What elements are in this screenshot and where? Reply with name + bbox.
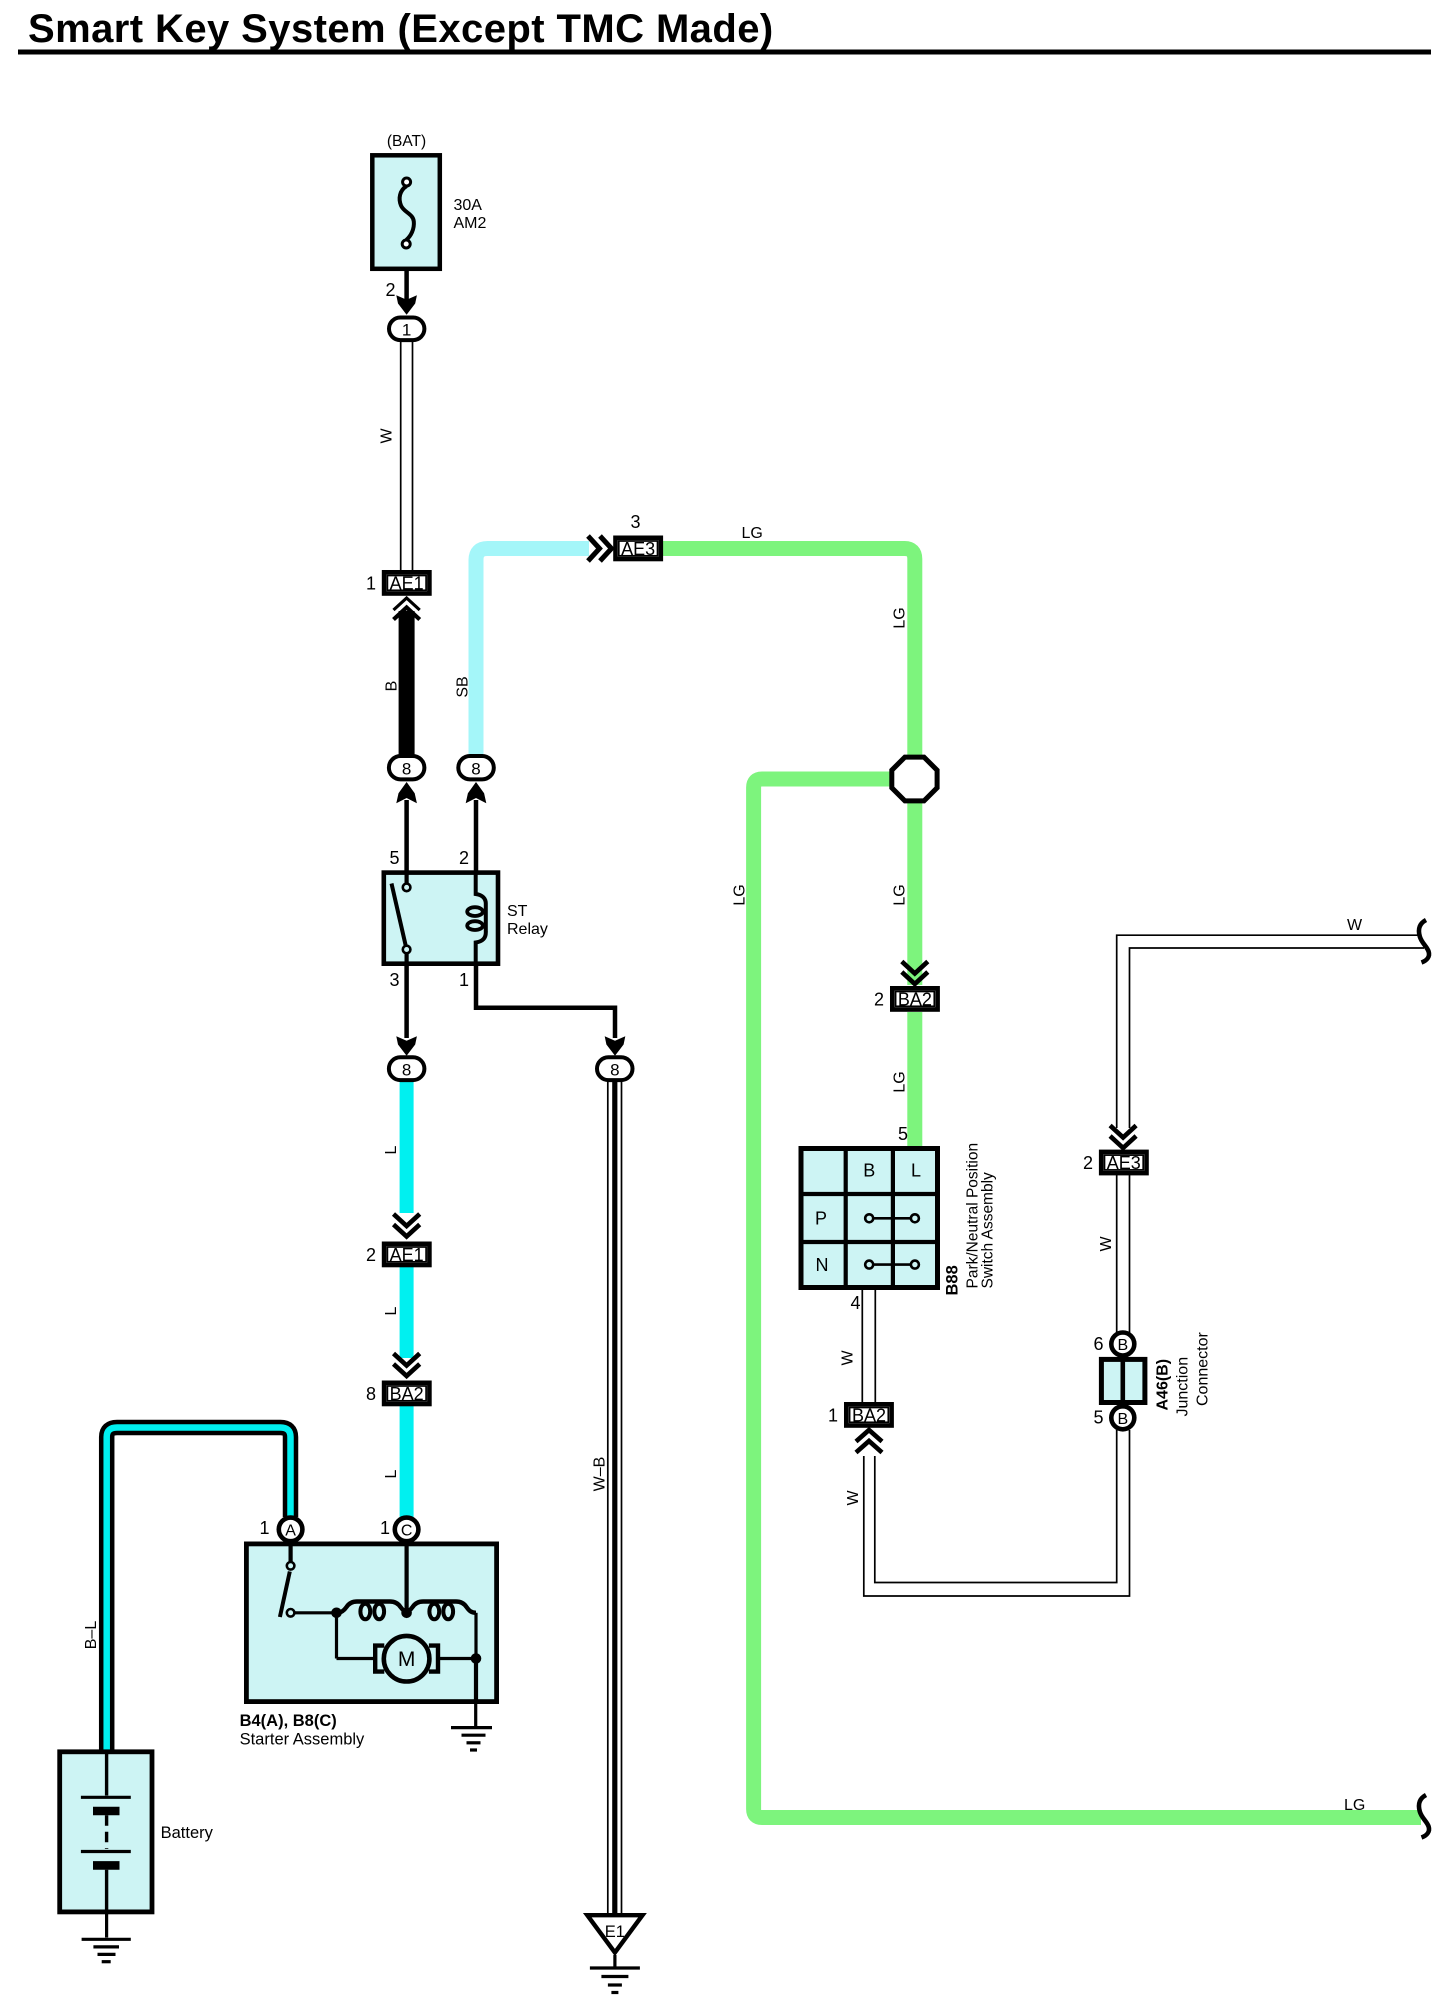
svg-text:L: L — [911, 1161, 921, 1181]
svg-text:A: A — [285, 1523, 296, 1540]
svg-text:W: W — [1347, 917, 1363, 934]
wire thin: relay pin2 up to splice 8 — [474, 800, 479, 872]
svg-text:A46(B): A46(B) — [1155, 1359, 1172, 1411]
wire L BA2 pin8 to starter terminal C — [400, 1404, 414, 1518]
svg-text:N: N — [816, 1255, 829, 1275]
svg-text:W: W — [840, 1350, 857, 1366]
ground E1 — [587, 1915, 642, 1992]
starter assembly B4(A), B8(C) — [246, 1543, 496, 1702]
svg-text:Smart Key System (Except TMC M: Smart Key System (Except TMC Made) — [28, 7, 774, 51]
wire W AE3 pin2 down to junction connector B6 — [1117, 1175, 1130, 1333]
svg-text:3: 3 — [389, 970, 399, 990]
splice oval 8 (right, SB) — [458, 756, 494, 779]
svg-text:B: B — [863, 1161, 875, 1181]
chevron down into BA2 pin8 — [394, 1354, 420, 1377]
svg-text:5: 5 — [389, 848, 399, 868]
svg-text:W–B: W–B — [592, 1457, 609, 1492]
svg-text:B: B — [1117, 1411, 1128, 1428]
wire LG AE3 pin3 to octagon splice — [661, 549, 915, 758]
svg-text:LG: LG — [892, 884, 909, 905]
svg-text:C: C — [401, 1523, 413, 1540]
splice oval 8 (L wire) — [389, 1057, 425, 1080]
wire W B88 pin4 down to BA2 pin1 — [862, 1290, 875, 1403]
svg-text:8: 8 — [610, 1061, 619, 1080]
arrow up into splice 8 right — [466, 782, 487, 803]
svg-text:LG: LG — [732, 884, 749, 905]
svg-text:W: W — [1098, 1236, 1115, 1252]
svg-text:L: L — [383, 1145, 400, 1154]
svg-text:BA2: BA2 — [390, 1384, 424, 1404]
svg-text:1: 1 — [828, 1406, 838, 1426]
svg-text:30A: 30A — [454, 197, 483, 214]
break symbol LG (right edge) — [1419, 1795, 1429, 1838]
svg-text:(BAT): (BAT) — [387, 133, 426, 150]
svg-text:LG: LG — [742, 525, 763, 542]
terminal circle B5 — [1111, 1406, 1134, 1429]
svg-text:8: 8 — [366, 1384, 376, 1404]
wire B-L battery to starter terminal A (black with cyan core) — [107, 1428, 291, 1751]
svg-text:8: 8 — [402, 1061, 411, 1080]
svg-text:B88: B88 — [944, 1265, 962, 1295]
motor M — [375, 1646, 384, 1672]
connector 2 AE3 (right column) — [1101, 1152, 1146, 1173]
connector 2 AE1 — [384, 1244, 429, 1265]
wire thin: relay pin5 up to splice 8 — [404, 800, 409, 872]
chevron down into BA2 pin2 (LG) — [902, 962, 928, 985]
connector 1 BA2 — [846, 1404, 891, 1425]
chevron down into AE3 pin2 (right column) — [1110, 1126, 1136, 1149]
svg-text:2: 2 — [385, 280, 395, 300]
svg-text:2: 2 — [366, 1245, 376, 1265]
svg-text:1: 1 — [259, 1518, 269, 1538]
starter coil — [337, 1602, 411, 1613]
connector 8 BA2 — [384, 1383, 429, 1404]
svg-text:W: W — [379, 428, 396, 444]
battery — [60, 1751, 152, 1912]
svg-text:BA2: BA2 — [852, 1406, 886, 1426]
svg-text:AE3: AE3 — [621, 539, 655, 559]
svg-text:1: 1 — [459, 970, 469, 990]
break symbol W (right edge) — [1419, 920, 1429, 963]
connector 1 AE1 — [384, 572, 429, 593]
ground below battery — [82, 1914, 131, 1962]
svg-text:3: 3 — [630, 512, 640, 532]
wire thin: relay pin3 down to splice 8 — [404, 966, 409, 1038]
wire LG octagon left branch to right edge (bottom) — [754, 779, 1421, 1818]
svg-text:4: 4 — [850, 1293, 860, 1313]
svg-text:8: 8 — [402, 760, 411, 779]
arrow up into splice 8 left — [396, 782, 417, 803]
svg-text:6: 6 — [1093, 1334, 1103, 1354]
svg-text:5: 5 — [898, 1124, 908, 1144]
svg-text:1: 1 — [380, 1518, 390, 1538]
svg-text:LG: LG — [892, 1071, 909, 1092]
svg-text:BA2: BA2 — [898, 990, 932, 1010]
svg-text:1: 1 — [402, 321, 411, 340]
svg-text:E1: E1 — [605, 1923, 625, 1941]
svg-text:B–L: B–L — [83, 1621, 100, 1650]
arrow down into splice 8 (pin1) — [605, 1036, 626, 1056]
wire SB splice 8 to AE3 pin 3 (pale cyan) — [476, 549, 589, 759]
ground below starter — [451, 1702, 492, 1750]
svg-text:AE1: AE1 — [390, 574, 424, 594]
svg-text:ST: ST — [507, 903, 528, 920]
connector 3 AE3 — [616, 538, 661, 559]
svg-text:AM2: AM2 — [454, 215, 487, 232]
wire B AE1 to splice 8 (thick black) — [399, 611, 415, 759]
svg-text:1: 1 — [366, 574, 376, 594]
svg-text:B: B — [384, 681, 401, 692]
svg-text:W: W — [845, 1490, 862, 1506]
octagon splice — [892, 757, 937, 801]
connector 2 BA2 — [892, 988, 937, 1009]
svg-text:2: 2 — [874, 990, 884, 1010]
wire LG octagon to BA2 pin 2 to B88 pin 5 — [907, 801, 922, 985]
wire W right column: break to AE3 pin2 (double line) — [1117, 935, 1424, 1128]
splice oval 1 — [389, 318, 424, 341]
svg-text:Starter Assembly: Starter Assembly — [240, 1731, 365, 1749]
splice oval 8 (W-B wire) — [597, 1057, 633, 1080]
svg-text:Relay: Relay — [507, 921, 548, 938]
svg-text:B: B — [1117, 1337, 1128, 1354]
splice oval 8 (left, B/L) — [389, 756, 425, 779]
wire thin: relay pin1 down, right, down to splice 8 — [476, 966, 615, 1038]
wire W junction connector B5 down, left, up to BA2 pin1 — [864, 1430, 1130, 1596]
wire L splice 8 to AE1 pin2 (vivid cyan) — [400, 1081, 414, 1213]
wire W-B splice 8 to ground E1 (white with black stripe) — [608, 1081, 622, 1914]
chevron up into AE1 — [394, 598, 420, 620]
svg-text:M: M — [398, 1648, 416, 1671]
svg-text:Connector: Connector — [1195, 1332, 1212, 1406]
svg-text:LG: LG — [892, 607, 909, 628]
terminal circle C — [395, 1518, 419, 1542]
svg-text:L: L — [383, 1306, 400, 1315]
svg-text:Junction: Junction — [1175, 1357, 1192, 1417]
chevron down into AE1 pin2 — [394, 1214, 420, 1237]
svg-text:AE3: AE3 — [1107, 1153, 1141, 1173]
svg-text:SB: SB — [455, 676, 472, 697]
terminal circle A — [279, 1518, 303, 1542]
fuse 30A AM2 (BAT) — [372, 155, 440, 268]
svg-text:2: 2 — [1083, 1153, 1093, 1173]
svg-text:AE1: AE1 — [390, 1245, 424, 1265]
arrow down into splice 8 (pin3) — [396, 1036, 417, 1056]
wire W fuse 2 to AE1 pin 1 (white, double line) — [401, 341, 413, 571]
svg-text:Battery: Battery — [161, 1824, 214, 1842]
terminal circle B6 — [1111, 1333, 1134, 1356]
B88 park/neutral position switch assembly — [799, 1146, 941, 1290]
chevrons right into AE3 — [588, 536, 612, 561]
svg-text:B4(A), B8(C): B4(A), B8(C) — [240, 1712, 337, 1730]
wire L AE1 pin2 to BA2 pin8 — [400, 1266, 414, 1358]
svg-text:LG: LG — [1344, 1797, 1365, 1814]
svg-text:2: 2 — [459, 848, 469, 868]
relay ST — [384, 872, 498, 966]
svg-text:L: L — [383, 1469, 400, 1478]
junction connector A46(B) — [1101, 1357, 1145, 1405]
svg-text:P: P — [815, 1209, 827, 1229]
svg-text:Switch Assembly: Switch Assembly — [980, 1172, 997, 1289]
svg-text:5: 5 — [1093, 1408, 1103, 1428]
chevron up into BA2 pin1 — [856, 1430, 882, 1453]
arrow down into splice 1 — [396, 295, 417, 315]
wire thin: fuse to arrow at splice 1 — [404, 246, 409, 302]
svg-text:8: 8 — [471, 760, 480, 779]
